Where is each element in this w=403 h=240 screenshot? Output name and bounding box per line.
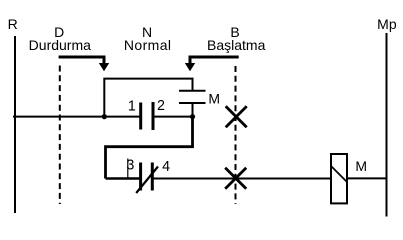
wire from M contact to rung [192, 103, 194, 117]
tick under label 3 [127, 159, 129, 179]
wire coil to Mp rail [347, 177, 387, 179]
contact M bottom plate [179, 102, 206, 104]
svg-text:Başlatma: Başlatma [207, 37, 266, 53]
wire main rung left segment [13, 116, 140, 118]
X mark lower on B line [225, 168, 246, 189]
svg-text:Durdurma: Durdurma [29, 37, 91, 53]
node junction left [102, 114, 107, 119]
wire lower loop [106, 117, 193, 179]
svg-text:R: R [8, 16, 18, 32]
contact M top plate [179, 90, 206, 92]
svg-text:M: M [208, 90, 220, 106]
right rail Mp [386, 33, 388, 217]
svg-text:Mp: Mp [377, 16, 397, 32]
node junction right [190, 114, 195, 119]
arrow from D [59, 57, 110, 71]
left rail R [14, 36, 16, 213]
wire main rung right segment [153, 116, 193, 118]
svg-text:Normal: Normal [124, 37, 172, 53]
svg-text:1: 1 [128, 99, 136, 115]
svg-text:4: 4 [162, 159, 170, 175]
contact 3-4 slash [136, 167, 158, 194]
relay coil M box [331, 154, 347, 203]
wire bottom rung left segment [106, 177, 141, 180]
svg-text:2: 2 [157, 98, 165, 114]
svg-text:M: M [355, 158, 367, 174]
arrow from B [185, 57, 239, 71]
dashed line D [59, 66, 61, 205]
wire latch loop top [104, 79, 192, 117]
dashed line B [235, 66, 237, 204]
contact 1-2 right bar [152, 102, 155, 130]
wire bottom rung right segment [152, 178, 331, 180]
contact 1-2 left bar [139, 103, 142, 130]
contact 3-4 right bar [151, 163, 154, 191]
X mark upper on B line [226, 106, 247, 127]
contact 3-4 left bar [139, 163, 142, 191]
